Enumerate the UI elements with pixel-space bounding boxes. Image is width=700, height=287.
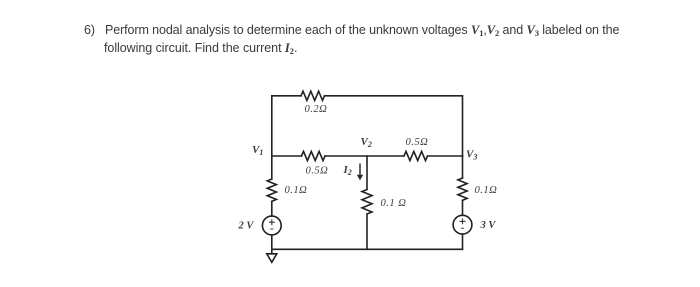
- ground stub: [271, 249, 273, 254]
- svg-text:0.1Ω: 0.1Ω: [475, 185, 498, 196]
- problem text line 1: [84, 23, 95, 37]
- wire right branch middle: [462, 201, 464, 216]
- wire left branch upper: [271, 156, 273, 179]
- wire middle branch upper: [366, 156, 368, 189]
- wire middle (to V2 node and on to right resistor): [325, 155, 404, 157]
- resistor 0.1 ohm (right branch): [458, 178, 467, 200]
- svg-text:V1: V1: [252, 144, 263, 157]
- wire left branch lower: [271, 202, 273, 217]
- svg-text:0.1 Ω: 0.1 Ω: [381, 198, 407, 209]
- wire left source to bottom: [271, 235, 273, 249]
- voltage source 2V circle: [262, 216, 281, 235]
- svg-text:I2: I2: [343, 164, 352, 177]
- voltage source 3V circle: [453, 215, 472, 234]
- wire right source to bottom: [462, 234, 464, 249]
- bottom wire: [272, 248, 463, 250]
- resistor 0.2 ohm (top): [301, 91, 324, 100]
- svg-text:0.2Ω: 0.2Ω: [305, 104, 328, 115]
- plus sign of 3V source: [460, 219, 466, 225]
- plus sign of 2V source: [269, 219, 466, 230]
- svg-text:0.5Ω: 0.5Ω: [306, 166, 329, 177]
- minus sign of 3V source: [461, 227, 464, 229]
- resistor 0.5 ohm (right middle): [404, 151, 427, 160]
- resistor 0.5 ohm (left middle): [302, 151, 325, 160]
- svg-text:0.1Ω: 0.1Ω: [285, 185, 308, 196]
- resistor 0.1 ohm (left branch): [267, 179, 276, 201]
- svg-text:2 V: 2 V: [238, 221, 255, 232]
- svg-text:V2: V2: [361, 136, 372, 149]
- svg-text:V3: V3: [466, 149, 477, 162]
- wire middle branch lower: [366, 215, 368, 249]
- wire top-right corner: [325, 96, 463, 156]
- minus sign of 2V source: [270, 228, 273, 230]
- wire top-left corner: [272, 96, 301, 156]
- svg-text:0.5Ω: 0.5Ω: [406, 137, 429, 148]
- svg-text:3 V: 3 V: [480, 220, 497, 231]
- current I2 arrow: [357, 164, 363, 181]
- wire middle-left (V1 to resistor): [272, 155, 302, 157]
- wire middle-right: [428, 155, 463, 157]
- problem text line 2: [104, 41, 297, 55]
- ground symbol triangle: [267, 254, 277, 262]
- resistor 0.1 ohm (middle branch): [362, 190, 372, 215]
- wire right branch upper: [462, 156, 464, 178]
